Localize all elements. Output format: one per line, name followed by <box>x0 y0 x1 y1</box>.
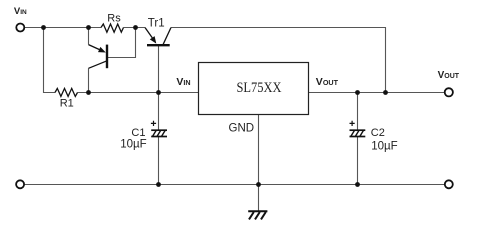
svg-text:VIN: VIN <box>176 76 190 88</box>
svg-text:VOUT: VOUT <box>438 70 460 81</box>
svg-text:VIN: VIN <box>14 6 27 17</box>
svg-text:10µF: 10µF <box>120 139 146 151</box>
svg-text:C1: C1 <box>131 127 145 139</box>
svg-text:SL75XX: SL75XX <box>237 80 282 96</box>
svg-text:10µF: 10µF <box>371 140 397 152</box>
svg-text:R1: R1 <box>60 98 74 110</box>
svg-text:GND: GND <box>229 122 255 134</box>
svg-text:VOUT: VOUT <box>316 76 339 88</box>
svg-text:Rs: Rs <box>107 13 121 25</box>
svg-text:Tr1: Tr1 <box>148 17 165 29</box>
svg-text:C2: C2 <box>371 127 385 139</box>
